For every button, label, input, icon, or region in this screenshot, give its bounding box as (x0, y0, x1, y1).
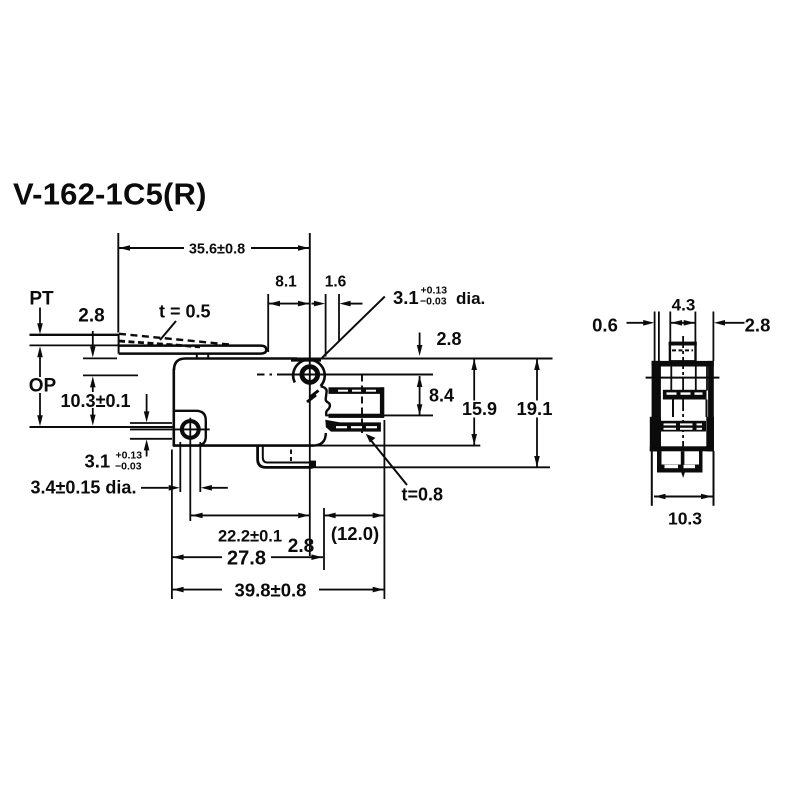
side view lever plate band (663, 390, 707, 400)
side view hinge centreline (horizontal) (646, 377, 720, 379)
spring anchor hash marks (307, 391, 319, 403)
dimension (12.0) (324, 508, 384, 570)
side view common terminal band (659, 421, 706, 432)
side view hinge boss block (669, 343, 697, 362)
lower right terminal (325, 420, 381, 432)
lower-left hinge boss (174, 411, 206, 446)
side view left bump (650, 417, 661, 452)
label 2.8 (PT value) (78, 306, 104, 327)
side view right column (708, 361, 714, 451)
extension line body bottom right (314, 445, 481, 447)
body edge notch below boss (321, 386, 330, 415)
side view inner verticals middle (673, 400, 707, 418)
extension line body left edge (down) (171, 450, 173, 600)
svg-text:35.6±0.8: 35.6±0.8 (189, 242, 245, 258)
svg-text:15.9: 15.9 (462, 399, 497, 419)
side view body top bar (652, 361, 714, 367)
label 3.1 +0.13/-0.03 dia. with leader to hinge hole (322, 285, 485, 358)
label 2.8 (hinge centre to body edge) (288, 536, 314, 557)
side view vertical centreline (680, 336, 685, 478)
svg-text:(12.0): (12.0) (331, 523, 379, 544)
dimension 22.2±0.1 (191, 513, 310, 546)
svg-text:1.6: 1.6 (325, 274, 347, 291)
dimension 2.8 / 10.3±0.1 arrows column (55, 331, 135, 426)
label t=0.8 with leader arrow to terminal (366, 434, 443, 505)
svg-text:19.1: 19.1 (516, 398, 552, 419)
svg-text:39.8±0.8: 39.8±0.8 (235, 580, 307, 601)
body top extension line (left short) (83, 357, 117, 359)
svg-text:0.6: 0.6 (592, 315, 618, 336)
hinge hole centreline extension down (309, 390, 311, 556)
extension line top reference (body top, right side) (297, 358, 553, 360)
extension line terminal tip right (down) (383, 420, 385, 599)
hinge hole (upper) (296, 361, 324, 390)
side view dimension 2.8 (714, 315, 770, 336)
dimension 19.1 (514, 359, 556, 467)
svg-text:22.2±0.1: 22.2±0.1 (218, 528, 282, 546)
svg-text:8.1: 8.1 (275, 274, 297, 291)
svg-text:t=0.8: t=0.8 (402, 485, 444, 505)
side view lower terminal frame (657, 451, 703, 473)
lower hole tangent extension lines (horizontal) (130, 423, 172, 439)
lower hole tangent extension lines (vertical, below body) (180, 442, 200, 492)
extension line terminal bottom (19.1) (313, 466, 550, 468)
svg-text:10.3±0.1: 10.3±0.1 (61, 391, 131, 411)
switch body outline (173, 359, 326, 447)
side view lower side lines (652, 451, 714, 506)
svg-text:8.4: 8.4 (429, 386, 454, 406)
OP operating-position line (30, 426, 174, 428)
dimension PT / OP arrows column (27, 308, 57, 427)
svg-text:3.4±0.15 dia.: 3.4±0.15 dia. (31, 478, 137, 498)
side view inner verticals upper (671, 367, 707, 391)
lever top extension line (30, 344, 119, 346)
svg-text:2.8: 2.8 (78, 306, 104, 327)
side view extension lines (top) (655, 312, 714, 362)
middle solder terminal hook (258, 445, 316, 468)
label PT (29, 289, 54, 310)
dimension 39.8±0.8 (172, 580, 384, 601)
lower hinge hole (130, 418, 210, 521)
side view left column (652, 361, 661, 451)
svg-text:3.1: 3.1 (85, 451, 111, 472)
svg-text:PT: PT (29, 289, 54, 310)
hinge centreline dash-dot (left of hole) (257, 374, 296, 376)
dimension 8.1 (268, 274, 310, 353)
svg-text:10.3: 10.3 (668, 509, 702, 529)
dimension 35.6±0.8 (118, 233, 309, 362)
dimension 8.4 (417, 376, 454, 415)
dimension 2.8 (top of body to hinge centre) (417, 329, 462, 356)
dimension 1.6 (312, 274, 363, 357)
PT free-position line (30, 334, 120, 336)
svg-text:t = 0.5: t = 0.5 (159, 302, 211, 322)
svg-text:dia.: dia. (456, 289, 485, 308)
side view right bump (706, 417, 714, 452)
svg-text:2.8: 2.8 (436, 329, 461, 349)
lever mounting tabs on body top (197, 353, 208, 358)
svg-text:OP: OP (29, 376, 57, 397)
svg-text:2.8: 2.8 (288, 536, 314, 557)
dimension 3.4±0.15 dia. (31, 478, 228, 498)
hinge hole boss arc (293, 360, 325, 386)
hinge lever (solid) (119, 346, 267, 354)
common terminal (upper right) (329, 387, 385, 418)
hinge centre extension line (left short) (83, 374, 138, 376)
dimension 27.8 (172, 548, 323, 570)
dimension 3.1 +0.13/-0.03 (left hole) (85, 394, 150, 473)
svg-text:2.8: 2.8 (745, 315, 771, 336)
lever free position (dashed) (119, 334, 230, 347)
dimension 15.9 (459, 359, 499, 445)
side view dimension 0.6 (592, 315, 654, 336)
svg-text:3.1: 3.1 (393, 287, 419, 308)
svg-text:−0.03: −0.03 (115, 461, 142, 473)
extension line hinge centreline right (324, 374, 433, 376)
svg-text:V-162-1C5(R): V-162-1C5(R) (13, 177, 207, 212)
svg-text:4.3: 4.3 (672, 296, 696, 315)
title V-162-1C5(R) (13, 177, 207, 212)
side view bottom bar (650, 446, 714, 451)
svg-text:27.8: 27.8 (227, 548, 266, 570)
label t = 0.5 with leader to lever (159, 302, 211, 341)
svg-text:−0.03: −0.03 (420, 296, 447, 308)
side view dimension 10.3 (654, 494, 713, 529)
side view dimension 4.3 (671, 296, 696, 326)
extension line terminal lower face (325, 414, 433, 416)
terminal centreline (dashed vertical) (361, 375, 363, 434)
